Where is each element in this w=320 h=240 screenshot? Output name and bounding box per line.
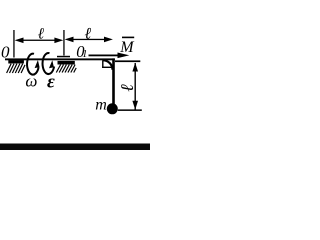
svg-text:ℓ: ℓ: [84, 25, 92, 42]
svg-text:ℓ: ℓ: [38, 25, 45, 42]
svg-text:m: m: [95, 97, 107, 114]
svg-text:ε: ε: [47, 71, 55, 92]
svg-text:1: 1: [82, 48, 88, 60]
svg-text:M: M: [119, 39, 135, 56]
svg-text:ℓ: ℓ: [117, 83, 137, 91]
svg-text:ω: ω: [25, 71, 37, 90]
